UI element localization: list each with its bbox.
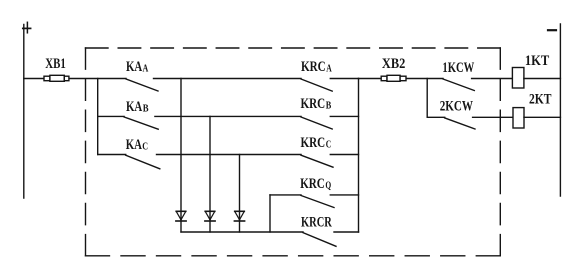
diode VD3: [234, 211, 244, 221]
svg-text:KRCR: KRCR: [301, 214, 332, 230]
wire: row1 KAa to KRCa: [154, 78, 302, 80]
wire: row3 KRCc to right KRC bus: [330, 154, 358, 156]
svg-text:KRC: KRC: [301, 135, 326, 151]
svg-text:2KCW: 2KCW: [440, 98, 473, 114]
dashed enclosure box right edge: [499, 48, 501, 256]
svg-text:KRC: KRC: [300, 176, 325, 192]
wire: row1 from + bus to KAa contact: [24, 78, 126, 80]
wire: right (-) bus: [559, 24, 561, 196]
wire: vertical bus from row2 to diode VD2 and row5: [209, 116, 211, 232]
wire: row1 KRCa to right KRC bus: [330, 78, 358, 80]
contact KRCc blade: [301, 155, 333, 167]
contact KRCq blade: [301, 196, 334, 208]
coil 1KT: [512, 68, 524, 89]
wire: row2 KRCb to right KRC bus: [330, 115, 358, 117]
diode VD1: [176, 211, 186, 221]
plus terminal: [23, 27, 31, 29]
svg-text:C: C: [142, 141, 148, 152]
contact KRCa blade: [301, 79, 332, 91]
wire: row2 2KCW to 2KT coil: [473, 116, 513, 118]
svg-text:KRC: KRC: [301, 96, 326, 112]
wire: row3 KAc to KRCc: [157, 154, 302, 156]
wire: row1 1KCW to 1KT coil: [472, 78, 513, 80]
contact KAa blade: [126, 79, 158, 91]
coil 2KT: [513, 108, 524, 128]
svg-text:XB2: XB2: [382, 56, 405, 72]
wire: row3 from left bus to KAc contact: [98, 154, 126, 156]
wire: vertical bus from row1 to diode VD1 and row5: [180, 79, 182, 232]
svg-text:KA: KA: [126, 99, 142, 115]
wire: row2 from left bus to KAb contact: [98, 115, 124, 117]
svg-text:B: B: [326, 101, 332, 112]
svg-text:A: A: [143, 63, 149, 74]
dashed enclosure box bottom edge: [86, 255, 501, 257]
svg-text:C: C: [326, 140, 332, 151]
fuse XB2: [381, 75, 406, 81]
diode VD2: [205, 211, 215, 221]
svg-text:2KT: 2KT: [529, 92, 552, 108]
svg-text:A: A: [326, 63, 332, 74]
wire: row4 from riser to KRCq contact: [270, 194, 301, 196]
fuse XB1: [44, 75, 69, 81]
wire: row1 right KRC bus to 1KCW contact: [359, 78, 444, 80]
wire: row4 KRCq to right KRC bus: [330, 194, 358, 196]
wire: vertical bus from row3 to diode VD3 and row5: [239, 155, 241, 233]
contact KRCR blade: [303, 233, 336, 247]
wire: vertical from row1 to 2KCW branch: [426, 79, 428, 118]
svg-text:KRC: KRC: [301, 59, 326, 75]
wire: row2 KAb to KRCb: [155, 115, 301, 117]
contact KRCb blade: [301, 117, 332, 129]
svg-text:Q: Q: [325, 180, 331, 191]
svg-text:KA: KA: [126, 137, 142, 153]
contact KAb blade: [124, 117, 158, 129]
contact 1KCW blade: [443, 79, 474, 91]
wire: 1KT to right bus: [524, 78, 561, 80]
svg-text:1KCW: 1KCW: [442, 60, 474, 76]
wire: row5 KRCR to right KRC bus: [334, 231, 359, 233]
dashed enclosure box top edge: [86, 47, 501, 49]
svg-text:1KT: 1KT: [525, 53, 549, 69]
svg-text:KA: KA: [126, 59, 142, 75]
wire: left (+) bus: [23, 25, 25, 199]
wire: right KRC bus: [358, 79, 360, 233]
wire: row2 branch to 2KCW contact: [427, 116, 445, 118]
wire: 2KT to right bus: [524, 116, 560, 118]
wire: row5 diode bus to KRCR contact: [181, 231, 303, 233]
wire: left vertical bus node: [97, 79, 99, 155]
contact 2KCW blade: [445, 118, 475, 129]
svg-text:B: B: [143, 103, 149, 114]
svg-text:XB1: XB1: [45, 56, 66, 72]
dashed enclosure box left edge: [85, 48, 87, 256]
wire: riser between row4 and row5: [269, 195, 271, 232]
minus terminal: [548, 29, 556, 31]
contact KAc blade: [126, 155, 160, 169]
